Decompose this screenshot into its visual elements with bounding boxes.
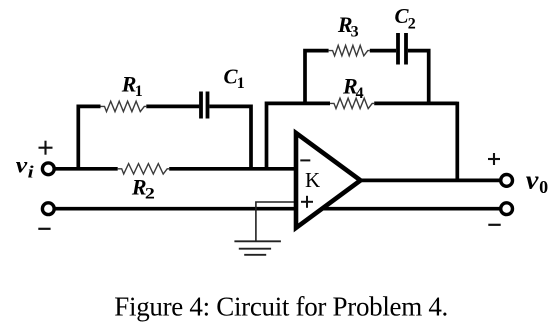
resistor R4 — [330, 98, 374, 108]
terminal v0 + — [501, 175, 513, 187]
wire: bottom rail vi- to v0- — [55, 207, 500, 211]
op-amp U1 (gain K) — [296, 133, 361, 228]
label C2 — [395, 4, 416, 32]
label vi — [16, 152, 34, 181]
wire: feedback vertical down to output wire — [455, 102, 459, 181]
wire: R4 branch left vertical from main wire up, lead to R4 — [267, 103, 331, 168]
plus sign at vi — [39, 141, 53, 155]
wire: op-amp output to v0+ — [358, 179, 500, 183]
terminal vi + — [42, 163, 54, 175]
wire: R2 right to op-amp inverting input — [169, 167, 296, 171]
label v0 — [526, 165, 549, 197]
wire: vi+ to R2 left — [55, 167, 118, 171]
svg-text:K: K — [305, 168, 320, 192]
capacitor C2 — [398, 33, 406, 65]
svg-text:3: 3 — [351, 23, 359, 40]
terminal vi - — [42, 203, 54, 215]
svg-text:1: 1 — [135, 83, 143, 100]
capacitor C1 — [201, 92, 208, 119]
resistor R3 — [329, 45, 370, 55]
resistor R1 — [101, 101, 147, 111]
terminal v0 - — [501, 203, 513, 215]
svg-text:2: 2 — [408, 15, 416, 32]
label R1 — [121, 72, 143, 101]
minus sign at vi — [38, 228, 50, 230]
wire: R4 right to feedback corner — [374, 102, 457, 106]
label C1 — [224, 64, 245, 92]
svg-text:2: 2 — [145, 185, 155, 202]
wire: C1 right plate to vertical down to main wire — [209, 106, 251, 168]
ground — [234, 241, 281, 255]
minus sign at v0 — [488, 224, 500, 226]
wire: R3 right to C2 left plate — [370, 49, 396, 53]
svg-text:0: 0 — [539, 177, 548, 197]
svg-text:4: 4 — [356, 85, 364, 102]
label R3 — [337, 12, 359, 40]
wire: R1 branch left vertical and lead to R1 — [78, 106, 100, 168]
plus sign at v0 — [488, 153, 500, 165]
wire: C2 right plate to vertical down to R4 line — [408, 51, 429, 104]
label R2 — [131, 174, 155, 202]
svg-text:Figure 4: Circuit for Problem: Figure 4: Circuit for Problem 4. — [114, 291, 448, 321]
wire: R1 right to C1 left plate — [146, 105, 199, 109]
svg-text:1: 1 — [237, 75, 245, 92]
label R4 — [342, 73, 364, 102]
ground wire to op-amp + input — [256, 202, 296, 241]
wire: R3 branch left vertical and lead to R3 — [305, 51, 329, 104]
resistor R2 — [118, 164, 170, 174]
svg-text:i: i — [28, 162, 34, 181]
svg-text:v: v — [526, 165, 539, 194]
svg-text:v: v — [16, 152, 28, 177]
